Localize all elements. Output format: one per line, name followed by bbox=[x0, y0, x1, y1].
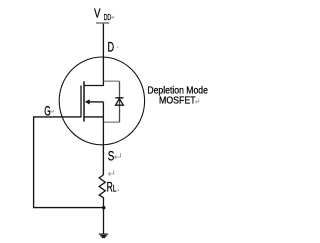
ground bbox=[99, 233, 108, 235]
resistor RL zigzag and leads bbox=[99, 175, 105, 234]
svg-text:R: R bbox=[107, 180, 113, 195]
return mark after VDD bbox=[112, 16, 114, 19]
wire gate lead, left leg and bottom leg bbox=[34, 117, 104, 208]
VDD supply terminal bar bbox=[96, 22, 109, 24]
body diode triangle bbox=[116, 99, 124, 106]
body tap with arrow bbox=[89, 101, 104, 103]
transistor envelope circle bbox=[59, 57, 144, 145]
return mark after RL bbox=[117, 189, 119, 191]
return mark after G bbox=[51, 110, 53, 113]
svg-text:S: S bbox=[108, 149, 115, 164]
gray body-diode branch vertical bbox=[119, 81, 121, 122]
wire VDD to drain tap bbox=[84, 24, 103, 86]
gray body-diode branch horizontals bbox=[104, 81, 120, 122]
source tap bbox=[84, 116, 103, 118]
return mark after S bbox=[114, 153, 120, 159]
svg-text:MOSFET: MOSFET bbox=[159, 96, 196, 107]
svg-text:G: G bbox=[44, 103, 51, 118]
return mark after MOSFET bbox=[195, 99, 198, 104]
svg-text:V: V bbox=[94, 7, 101, 21]
svg-text:L: L bbox=[113, 184, 117, 194]
return mark after D bbox=[117, 46, 118, 47]
wire body tap down through source to resistor bbox=[102, 102, 104, 175]
junction dot bbox=[102, 206, 105, 209]
svg-text:DD: DD bbox=[104, 12, 112, 22]
MOSFET channel bar bbox=[83, 81, 85, 121]
MOSFET gate plate bbox=[80, 85, 82, 117]
svg-text:D: D bbox=[108, 39, 115, 54]
standalone return mark bbox=[108, 170, 113, 175]
body diode cathode bar bbox=[115, 97, 123, 99]
